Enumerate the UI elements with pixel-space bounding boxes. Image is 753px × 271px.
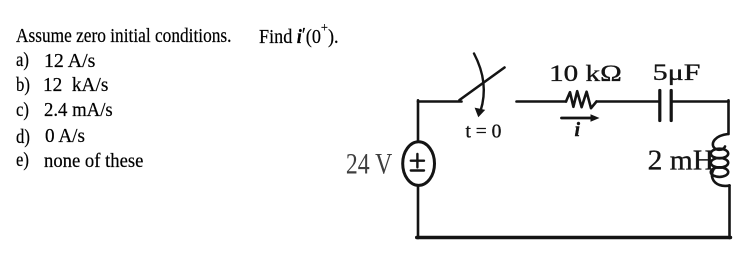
plus sign <box>411 154 424 167</box>
switch blade <box>460 68 505 101</box>
wire resistor to capacitor <box>597 100 659 103</box>
svg-text:2 mH: 2 mH <box>648 145 715 177</box>
option c <box>16 101 29 121</box>
option e <box>16 151 29 171</box>
inductor L coil bottom hook <box>712 170 730 186</box>
wire left vertical upper <box>417 100 420 141</box>
svg-text:t = 0: t = 0 <box>466 122 502 143</box>
switch closing arc <box>474 54 484 112</box>
inductor loop 2 <box>711 158 728 168</box>
voltage source V1 circle <box>403 142 435 186</box>
capacitor C right plate <box>670 91 673 121</box>
option d <box>16 128 30 148</box>
option b <box>16 76 30 96</box>
wire right vertical lower <box>728 186 731 239</box>
switch arrowhead <box>475 108 486 118</box>
inductor L coil top hook <box>713 134 728 150</box>
wire top-left horizontal <box>418 100 462 103</box>
resistor R zigzag <box>566 91 597 108</box>
question line <box>16 27 231 47</box>
wire left vertical lower <box>417 186 420 238</box>
capacitor C left plate <box>658 91 661 121</box>
svg-text:10 kΩ: 10 kΩ <box>549 61 622 86</box>
svg-text:24 V: 24 V <box>346 147 393 180</box>
wire bottom horizontal <box>417 236 731 239</box>
current arrow <box>562 117 594 120</box>
wire right vertical upper <box>727 100 730 134</box>
question find part <box>259 28 339 48</box>
option a <box>16 51 29 71</box>
inductor loop 1 <box>711 149 728 159</box>
minus sign <box>411 169 424 171</box>
svg-text:i: i <box>575 119 581 141</box>
inductor loop 3 <box>711 167 728 177</box>
wire capacitor to corner <box>673 100 729 103</box>
svg-text:5μF: 5μF <box>653 60 701 86</box>
wire switch to resistor <box>517 100 567 103</box>
